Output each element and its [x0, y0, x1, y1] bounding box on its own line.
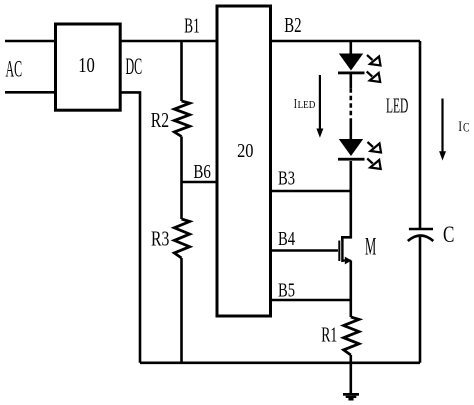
svg-text:C: C: [443, 222, 454, 248]
svg-text:10: 10: [78, 53, 95, 77]
svg-text:B3: B3: [278, 168, 295, 190]
svg-text:B6: B6: [193, 161, 211, 183]
svg-text:I: I: [458, 119, 462, 135]
svg-text:B1: B1: [184, 14, 199, 38]
svg-text:C: C: [463, 120, 469, 134]
svg-text:B2: B2: [284, 13, 301, 37]
svg-text:LED: LED: [298, 99, 316, 111]
svg-text:DC: DC: [126, 54, 143, 79]
svg-text:R2: R2: [151, 108, 169, 132]
svg-text:R1: R1: [321, 323, 337, 347]
svg-text:20: 20: [237, 140, 253, 162]
svg-text:B5: B5: [278, 280, 295, 302]
svg-text:LED: LED: [386, 93, 408, 117]
svg-text:R3: R3: [151, 226, 169, 250]
svg-text:AC: AC: [6, 56, 23, 81]
svg-text:B4: B4: [278, 228, 295, 250]
svg-text:M: M: [365, 234, 376, 261]
